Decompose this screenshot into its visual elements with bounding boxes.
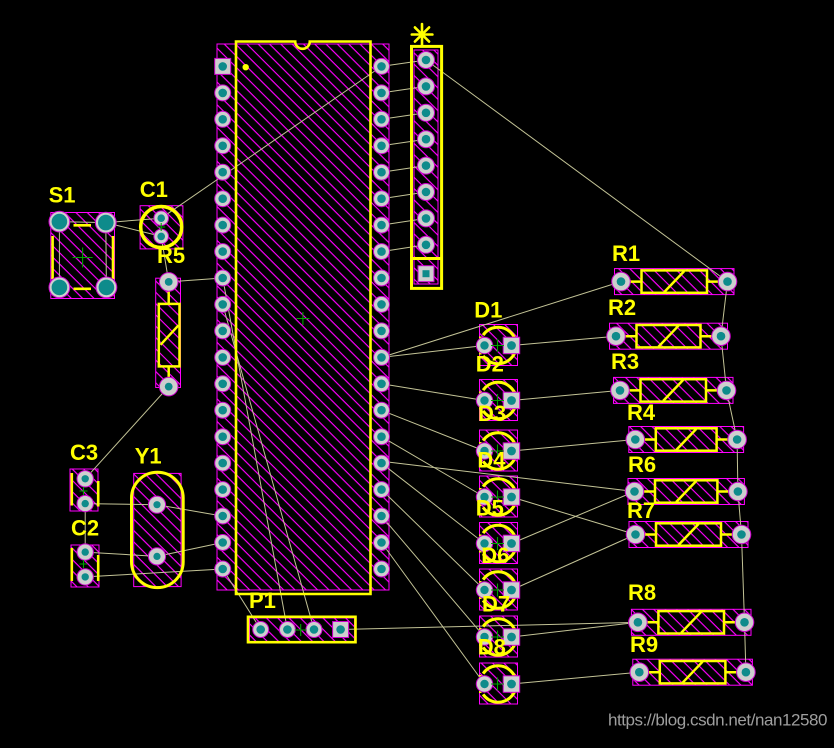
LED D4 pad 1 <box>476 489 492 505</box>
wire Y1 pad2 to IC pin19 <box>157 543 223 557</box>
LED D7 silkscreen arc <box>480 619 516 655</box>
LED D4 footprint body <box>480 476 518 517</box>
IC U1 pin 4 pad <box>215 138 231 154</box>
switch S1 silkscreen <box>53 225 113 288</box>
svg-text:D5: D5 <box>476 496 504 521</box>
svg-text:C1: C1 <box>140 177 168 202</box>
wire IC pin33 to R1 pad1 <box>382 282 622 358</box>
resistor R9 pad 2 <box>737 663 756 682</box>
svg-text:R8: R8 <box>628 580 656 605</box>
LED D8 pad 1 <box>476 676 492 692</box>
wire D2 pad2 to R3 pad1 <box>512 390 621 400</box>
svg-text:R4: R4 <box>627 400 656 425</box>
LED D5 footprint body <box>480 523 518 564</box>
LED D8 pad 2 (square pad) <box>503 676 520 693</box>
IC U1 pin 16 pad <box>215 455 231 471</box>
LED D2 footprint body <box>480 380 518 421</box>
wire IC pin26 to D7 pad1 <box>382 516 485 637</box>
IC U1 pin 1 (square pad) <box>215 58 231 74</box>
wire S1 pad1 to S1 pad3 <box>58 222 60 288</box>
LED D5 pad 2 (square pad) <box>503 535 520 552</box>
connector J1 pad 6 <box>418 184 435 201</box>
resistor R5 footprint body <box>156 278 181 387</box>
node D1 origin cross <box>491 339 504 352</box>
IC U1 pin 38 pad <box>374 111 390 127</box>
wire D1 pad2 to R2 pad1 <box>512 336 617 345</box>
wire IC pin25 to D8 pad1 <box>382 543 485 685</box>
node P1 origin cross <box>295 624 307 636</box>
resistor R1 pad 1 <box>612 272 631 291</box>
IC U1 silkscreen outline <box>236 42 371 595</box>
IC U1 pin 33 pad <box>374 244 390 260</box>
resistor R2 footprint body <box>610 323 728 349</box>
IC U1 pin 25 pad <box>374 455 390 471</box>
LED D1 pad 1 <box>476 337 492 353</box>
wire R8 pad2 to R9 pad2 <box>745 622 746 672</box>
svg-text:Y1: Y1 <box>135 443 162 468</box>
node D5 origin cross <box>491 537 504 550</box>
label star marker on J1 <box>412 24 433 45</box>
wire IC pin38 to J1 pad3 <box>382 113 427 120</box>
node D7 origin cross <box>491 631 504 644</box>
svg-text:R1: R1 <box>612 241 640 266</box>
IC U1 pin 13 pad <box>215 376 231 392</box>
resistor R3 silkscreen body <box>622 379 725 401</box>
LED D6 footprint body <box>480 569 518 610</box>
wire D7 pad2 to R8 pad1 <box>512 622 638 637</box>
switch S1 pad 3 <box>49 277 70 298</box>
header P1 pad 3 <box>306 622 322 638</box>
wire IC pin31 to D2 pad1 <box>382 384 485 401</box>
resistor R7 pad 2 <box>732 525 751 544</box>
resistor R2 pad 2 <box>712 327 731 346</box>
switch S1 pad 4 <box>96 277 117 298</box>
wire S1 pad2 to S1 pad4 <box>105 223 108 288</box>
resistor R7 footprint body <box>629 522 748 548</box>
IC U1 pin 30 pad <box>374 323 390 339</box>
resistor R1 pad 2 <box>718 272 737 291</box>
connector J1 pad 9 (square pad) <box>418 266 434 282</box>
IC U1 pin 9 pad <box>215 270 231 286</box>
LED D1 footprint body <box>480 325 518 366</box>
LED D7 pad 1 <box>476 629 492 645</box>
svg-text:C3: C3 <box>70 440 98 465</box>
LED D3 pad 2 (square pad) <box>503 443 520 460</box>
node C3 origin cross <box>80 487 88 495</box>
header P1 pad 2 <box>279 622 295 638</box>
wire R3 pad2 to R4 pad2 <box>727 390 738 439</box>
node IC U1 origin cross <box>296 312 309 325</box>
wire C3 pad2 to C2 pad1 <box>84 504 86 552</box>
wire R1 pad2 to R2 pad2 <box>721 282 728 337</box>
resistor R5 pad 1 <box>159 273 178 292</box>
wire C1 pad2 to R5 pad1 <box>161 236 169 282</box>
LED D2 pad 1 <box>476 392 492 408</box>
IC U1 pin 14 pad <box>215 402 231 418</box>
IC U1 pin 24 pad <box>374 482 390 498</box>
LED D7 pad 2 (square pad) <box>503 629 520 646</box>
node C1 origin cross <box>157 223 165 231</box>
svg-text:D4: D4 <box>477 448 506 473</box>
resistor R5 pad 2 <box>159 377 178 396</box>
wire J1 pad1 to R1 pad2 <box>426 60 728 282</box>
header P1 pad 1 <box>253 622 269 638</box>
IC U1 pin 32 pad <box>374 270 390 286</box>
svg-text:D6: D6 <box>481 543 509 568</box>
wire R6 pad2 to R7 pad2 <box>738 492 742 535</box>
IC U1 pin 35 pad <box>374 191 390 207</box>
svg-text:D3: D3 <box>478 401 506 426</box>
capacitor C3 pad 2 <box>77 495 93 511</box>
IC U1 pin 3 pad <box>215 111 231 127</box>
wire S1 pad2 to C1 pad1 <box>106 218 161 222</box>
wire R5 pad1 to IC pin9 <box>169 278 223 282</box>
LED D3 pad 1 <box>476 443 492 459</box>
IC U1 pin 19 pad <box>215 535 231 551</box>
wire D4 pad2 to R7 pad1 <box>512 497 636 535</box>
resistor R4 pad 2 <box>728 430 747 449</box>
resistor R1 silkscreen body <box>623 270 726 292</box>
IC U1 pin 12 pad <box>215 349 231 365</box>
capacitor C2 pad 2 <box>77 569 93 585</box>
resistor R6 silkscreen body <box>637 480 736 502</box>
connector J1 pad 4 <box>418 131 435 148</box>
LED D8 silkscreen arc <box>480 666 516 702</box>
resistor R6 pad 1 <box>625 482 644 501</box>
wire IC pin34 to J1 pad7 <box>382 218 427 225</box>
IC U1 pin 22 pad <box>374 535 390 551</box>
IC U1 pin 34 pad <box>374 217 390 233</box>
wire D5 pad2 to R6 pad1 <box>512 492 635 544</box>
LED D6 silkscreen arc <box>480 572 516 608</box>
wire R7 pad2 to R8 pad2 <box>742 535 745 623</box>
LED D3 footprint body <box>480 430 518 471</box>
wire S1 pad1 to S1 pad2 <box>59 222 105 223</box>
wire D8 pad2 to R9 pad1 <box>512 672 640 684</box>
resistor R6 pad 2 <box>729 482 748 501</box>
IC U1 pin 31 pad <box>374 296 390 312</box>
node S1 origin cross <box>73 248 93 268</box>
crystal Y1 silkscreen stadium outline <box>132 472 184 587</box>
IC U1 pin 5 pad <box>215 164 231 180</box>
wire IC pin29 to D4 pad1 <box>382 437 485 497</box>
wire P1 pad4 to R8 pad1 <box>341 622 638 629</box>
svg-text:C2: C2 <box>71 516 99 541</box>
wire R4 pad2 to R6 pad2 <box>736 440 739 492</box>
svg-text:P1: P1 <box>249 588 276 613</box>
svg-text:R9: R9 <box>630 632 658 657</box>
resistor R3 pad 2 <box>717 381 736 400</box>
IC U1 pin 2 pad <box>215 85 231 101</box>
crystal Y1 pad 2 <box>148 548 165 565</box>
IC U1 pin 18 pad <box>215 508 231 524</box>
resistor R5 silkscreen body <box>159 284 180 385</box>
capacitor C2 silkscreen <box>72 548 98 581</box>
wire Y1 pad1 to IC pin18 <box>157 505 223 516</box>
resistor R9 pad 1 <box>630 663 649 682</box>
capacitor C1 pad 1 <box>154 211 169 226</box>
IC U1 pin 8 pad <box>215 244 231 260</box>
capacitor C1 silkscreen circle <box>141 207 182 248</box>
IC U1 pin 20 pad <box>215 561 231 577</box>
capacitor C3 pad 1 <box>77 471 93 487</box>
switch S1 footprint body <box>51 213 115 299</box>
LED D4 silkscreen arc <box>480 479 516 515</box>
svg-text:R6: R6 <box>628 452 656 477</box>
LED D1 silkscreen arc <box>480 327 516 363</box>
connector J1 pad 2 <box>418 78 435 95</box>
svg-text:R3: R3 <box>611 349 639 374</box>
resistor R2 silkscreen body <box>618 325 719 347</box>
capacitor C3 silkscreen <box>72 473 98 507</box>
IC U1 pin 37 pad <box>374 138 390 154</box>
resistor R9 footprint body <box>633 659 753 685</box>
node D4 origin cross <box>491 491 504 504</box>
resistor R9 silkscreen body <box>641 661 744 683</box>
node D6 origin cross <box>491 584 504 597</box>
IC U1 pin 28 pad <box>374 376 390 392</box>
svg-text:D1: D1 <box>474 297 502 322</box>
wire IC pin25 to R6 pad1 <box>382 461 635 491</box>
resistor R4 silkscreen body <box>637 428 735 450</box>
svg-text:D7: D7 <box>482 592 510 617</box>
connector J1 pad 3 <box>418 104 435 121</box>
switch S1 pad 1 <box>49 211 70 232</box>
header P1 pad 4 (square pad) <box>333 622 349 638</box>
resistor R4 footprint body <box>629 427 744 453</box>
IC U1 pin 21 pad <box>374 561 390 577</box>
capacitor C2 footprint body <box>71 545 99 587</box>
IC U1 pin 26 pad <box>374 429 390 445</box>
IC U1 pin 10 pad <box>215 296 231 312</box>
IC U1 pin 27 pad <box>374 402 390 418</box>
connector J1 pad 7 <box>418 210 435 227</box>
wire C3 pad1 to R5 pad2 <box>85 387 169 479</box>
capacitor C3 footprint body <box>70 469 98 511</box>
connector J1 pad 8 <box>418 236 435 253</box>
crystal Y1 footprint body <box>134 473 181 586</box>
resistor R1 footprint body <box>615 269 735 295</box>
connector J1 pad 1 <box>418 52 435 69</box>
wire IC pin37 to J1 pad4 <box>382 139 427 146</box>
node D2 origin cross <box>491 394 504 407</box>
IC U1 pin 11 pad <box>215 323 231 339</box>
resistor R3 pad 1 <box>611 381 630 400</box>
LED D4 pad 2 (square pad) <box>503 489 520 506</box>
node D3 origin cross <box>491 445 504 458</box>
wire IC pin28 to D5 pad1 <box>382 463 485 543</box>
IC U1 pin 29 pad <box>374 349 390 365</box>
wire IC pin27 to D6 pad1 <box>382 490 485 590</box>
wire C2 pad2 to IC pin20 <box>85 569 223 577</box>
resistor R8 pad 2 <box>735 613 754 632</box>
capacitor C2 pad 1 <box>77 544 93 560</box>
IC U1 DIP-40 footprint body <box>217 44 389 590</box>
wire IC pin20 to P1 pad1 <box>223 569 261 630</box>
svg-text:R5: R5 <box>157 243 185 268</box>
wire IC pin33 to J1 pad8 <box>382 245 427 252</box>
IC U1 pin 17 pad <box>215 482 231 498</box>
connector J1 pad 5 <box>418 157 435 174</box>
LED D2 pad 2 (square pad) <box>503 392 520 409</box>
wire C3 pad2 to Y1 pad1 <box>85 504 157 505</box>
LED D1 pad 2 (square pad) <box>503 337 520 354</box>
wire C2 pad1 to Y1 pad2 <box>85 552 157 556</box>
wire IC pin35 to J1 pad6 <box>382 192 427 199</box>
wire IC pin39 to J1 pad2 <box>382 86 427 93</box>
resistor R8 pad 1 <box>629 613 648 632</box>
wire IC pin30 to D3 pad1 <box>382 410 485 451</box>
crystal Y1 pad 1 <box>148 496 165 513</box>
LED D6 pad 1 <box>476 582 492 598</box>
LED D7 footprint body <box>480 616 518 657</box>
LED D8 footprint body <box>480 663 518 704</box>
wire D3 pad2 to R4 pad1 <box>512 440 636 452</box>
resistor R6 footprint body <box>628 479 744 505</box>
IC U1 pin 6 pad <box>215 191 231 207</box>
svg-text:S1: S1 <box>49 182 76 207</box>
resistor R7 silkscreen body <box>638 523 740 545</box>
wire R2 pad2 to R3 pad2 <box>721 336 727 390</box>
node C2 origin cross <box>80 560 88 568</box>
IC U1 pin 40 pad <box>374 58 390 74</box>
LED D5 pad 1 <box>476 535 492 551</box>
header P1 footprint body <box>250 618 355 642</box>
resistor R3 footprint body <box>614 377 734 403</box>
switch S1 pad 2 <box>95 212 116 233</box>
connector J1 silkscreen outline <box>412 46 442 288</box>
wire IC pin10 to P1 pad3 <box>223 305 314 630</box>
resistor R8 silkscreen body <box>640 611 743 633</box>
svg-text:R7: R7 <box>627 498 655 523</box>
IC U1 pin 7 pad <box>215 217 231 233</box>
resistor R2 pad 1 <box>607 327 626 346</box>
LED D2 silkscreen arc <box>480 382 516 418</box>
svg-text:D8: D8 <box>478 635 506 660</box>
svg-text:https://blog.csdn.net/nan12580: https://blog.csdn.net/nan12580 <box>608 711 827 730</box>
wire IC pin32 to D1 pad1 <box>382 346 485 358</box>
header P1 silkscreen outline <box>248 617 356 642</box>
wire D6 pad2 to R7 pad1 <box>512 535 636 591</box>
wire S1 pad2 to C1 pad2 <box>106 223 161 237</box>
resistor R8 footprint body <box>631 609 751 635</box>
LED D5 silkscreen arc <box>480 525 516 561</box>
IC U1 pin 23 pad <box>374 508 390 524</box>
LED D6 pad 2 (square pad) <box>503 582 520 599</box>
IC U1 pin 15 pad <box>215 429 231 445</box>
wire IC pin36 to J1 pad5 <box>382 166 427 173</box>
node D8 origin cross <box>491 678 504 691</box>
capacitor C1 pad 2 <box>154 229 169 244</box>
wire C1 pad1 to IC pin40 <box>161 66 381 218</box>
svg-text:D2: D2 <box>476 352 504 377</box>
IC U1 pin 39 pad <box>374 85 390 101</box>
IC U1 pin-1 dot marker <box>243 64 249 70</box>
wire IC pin40 to J1 pad1 <box>382 60 427 66</box>
svg-text:R2: R2 <box>608 295 636 320</box>
resistor R4 pad 1 <box>626 430 645 449</box>
wire IC pin9 to P1 pad2 <box>223 278 288 630</box>
LED D3 silkscreen arc <box>480 433 516 469</box>
connector J1 footprint body <box>414 50 438 284</box>
capacitor C1 footprint body <box>140 206 183 249</box>
IC U1 pin 36 pad <box>374 164 390 180</box>
resistor R7 pad 1 <box>626 525 645 544</box>
